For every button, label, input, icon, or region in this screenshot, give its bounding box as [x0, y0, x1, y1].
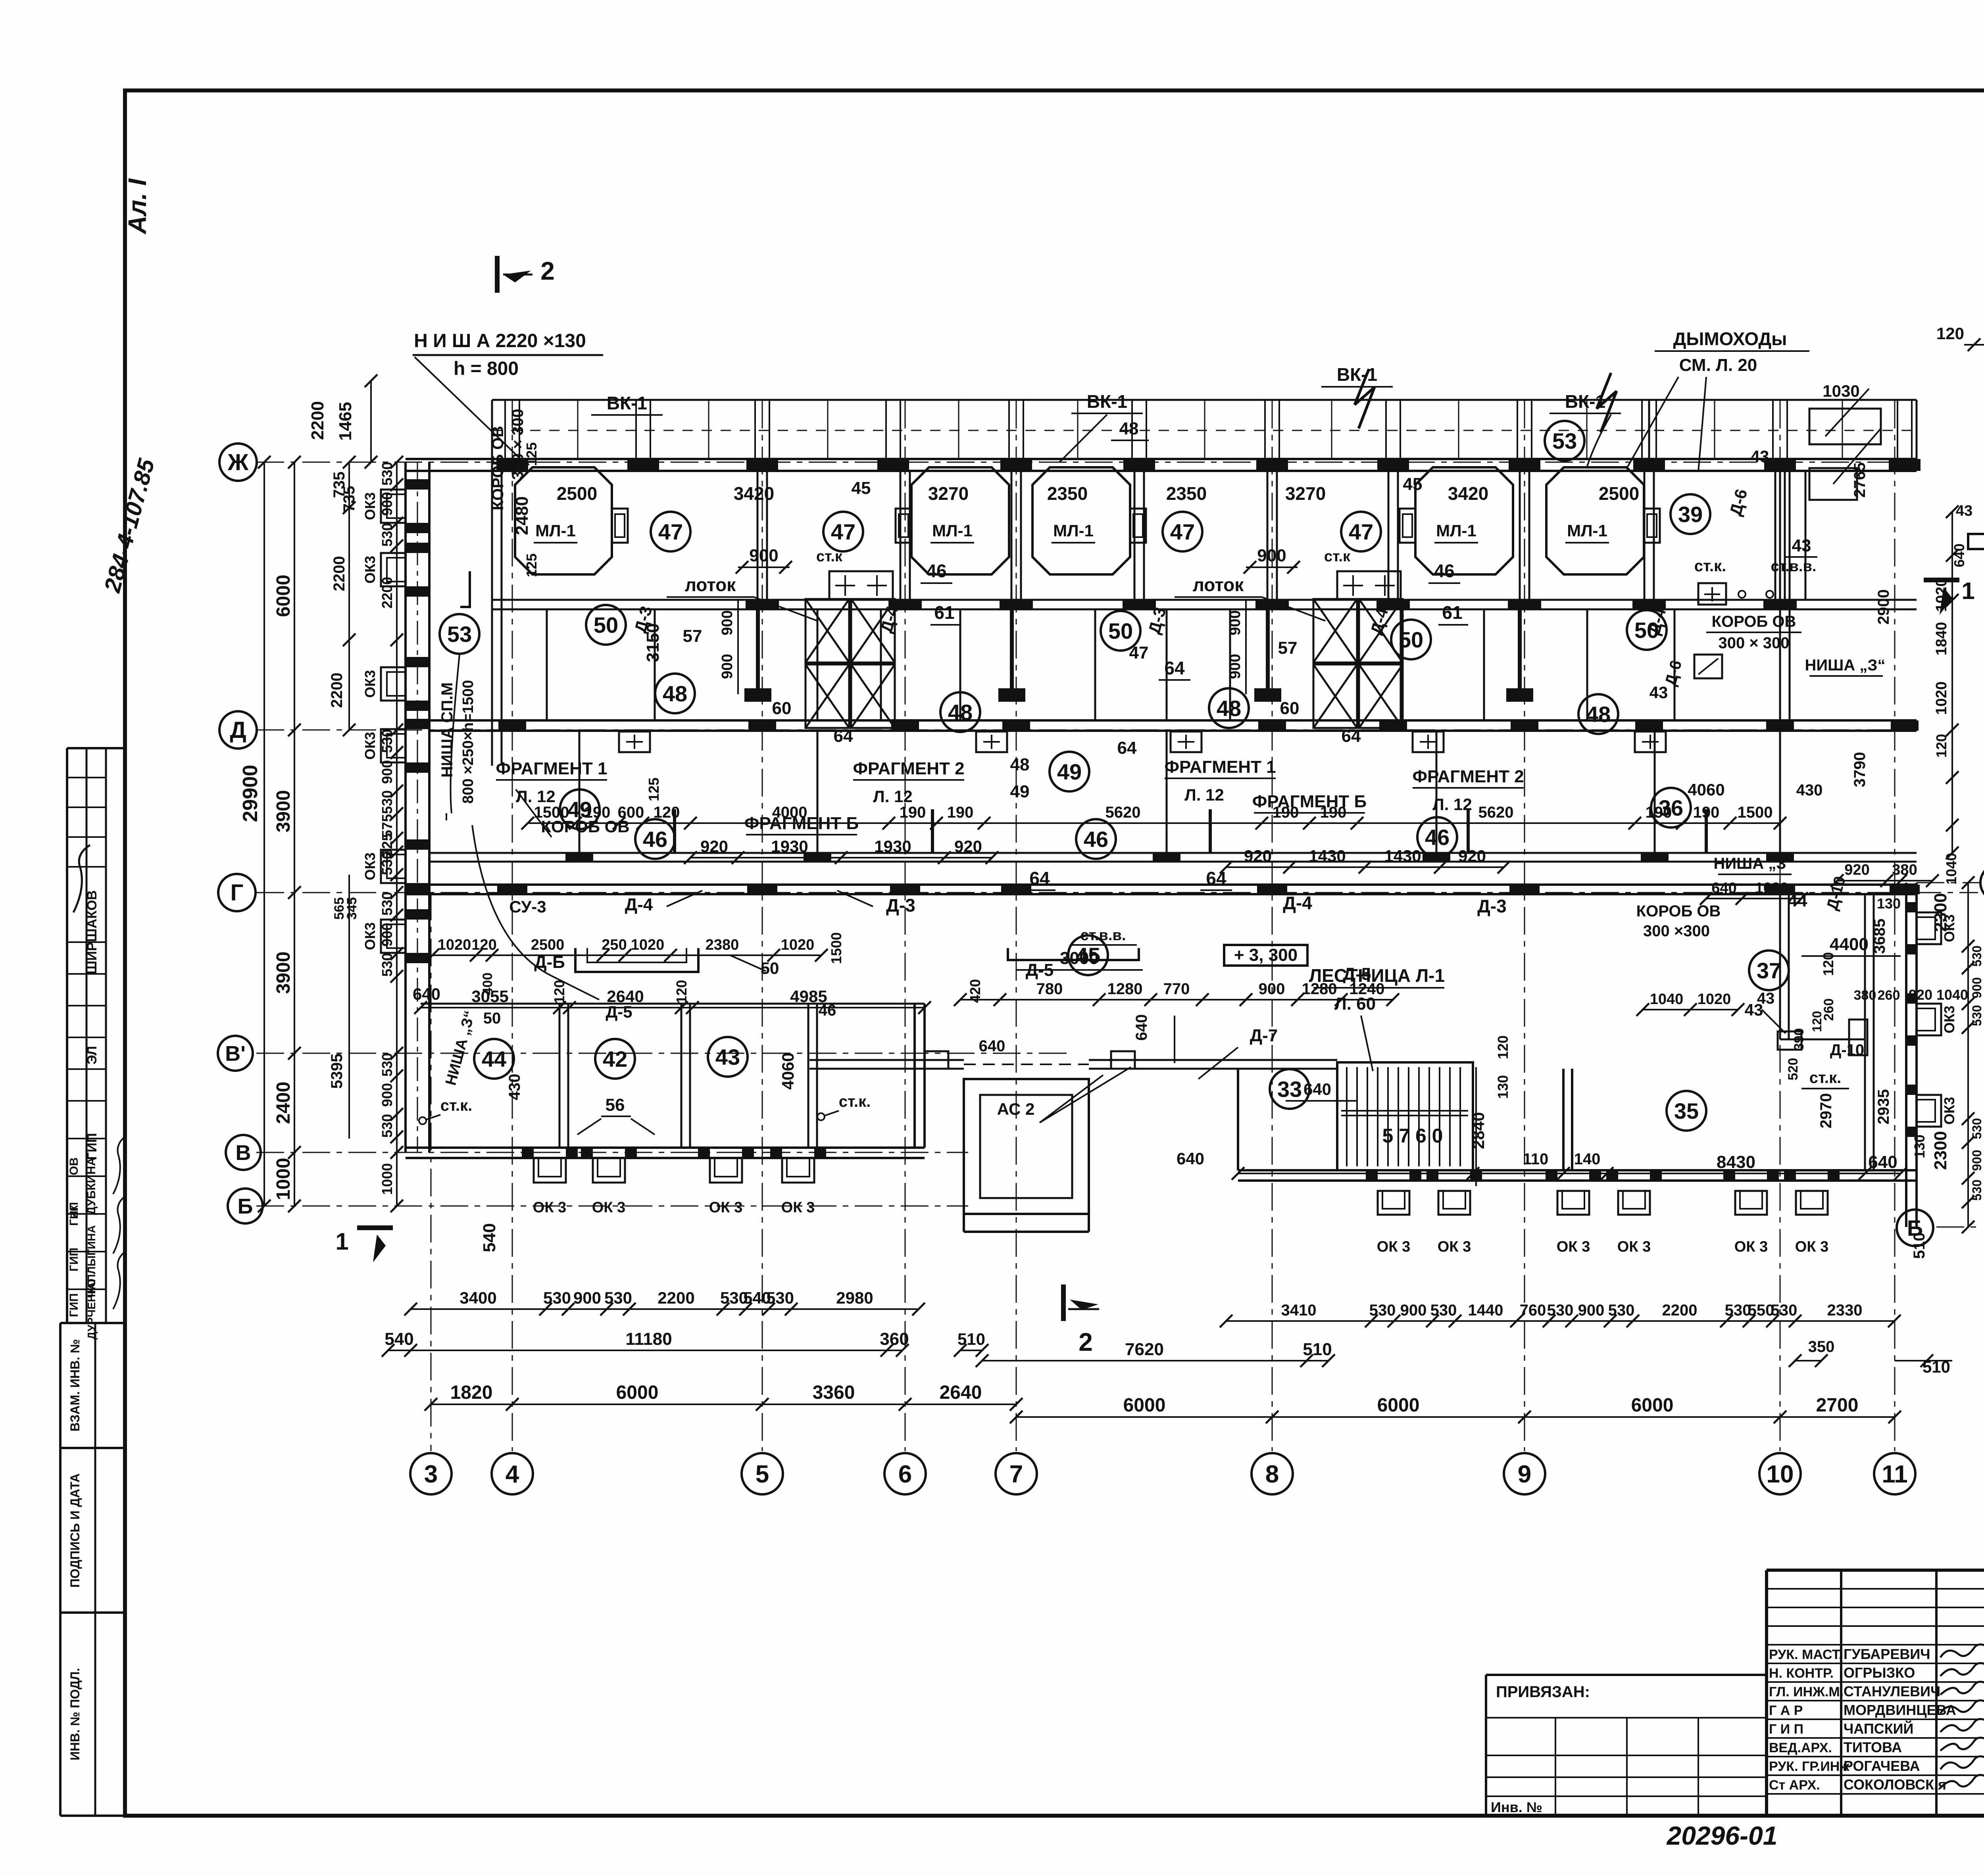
svg-text:48: 48 — [948, 700, 973, 725]
svg-text:46: 46 — [1434, 561, 1454, 581]
svg-text:60: 60 — [772, 699, 792, 718]
svg-text:ВК-1: ВК-1 — [1565, 391, 1605, 412]
svg-text:2350: 2350 — [1047, 483, 1088, 504]
svg-text:510: 510 — [1911, 1233, 1928, 1259]
svg-text:В: В — [236, 1141, 251, 1165]
svg-text:130: 130 — [1877, 895, 1901, 912]
svg-text:ИНВ. № ПОДЛ.: ИНВ. № ПОДЛ. — [68, 1668, 82, 1760]
svg-text:ОК3: ОК3 — [362, 732, 378, 760]
svg-text:Д-4: Д-4 — [1283, 893, 1312, 913]
svg-text:120: 120 — [1936, 324, 1964, 343]
svg-text:ФРАГМЕНТ 2: ФРАГМЕНТ 2 — [853, 759, 964, 778]
svg-text:1280: 1280 — [1107, 980, 1143, 998]
svg-text:760: 760 — [1520, 1302, 1546, 1319]
svg-text:ВК-1: ВК-1 — [1087, 391, 1127, 412]
svg-text:46: 46 — [1425, 825, 1450, 850]
svg-text:640: 640 — [413, 985, 440, 1003]
svg-text:1500: 1500 — [534, 804, 569, 821]
svg-text:64: 64 — [834, 726, 853, 746]
svg-text:Г: Г — [231, 880, 244, 906]
svg-text:ОК3: ОК3 — [362, 853, 378, 880]
svg-text:РУК. МАСТ.: РУК. МАСТ. — [1769, 1647, 1842, 1662]
svg-text:ст.к: ст.к — [1324, 548, 1351, 565]
svg-text:120: 120 — [471, 937, 496, 953]
svg-text:920: 920 — [954, 837, 982, 856]
svg-text:120: 120 — [1495, 1035, 1511, 1059]
svg-text:РУК. ГР.ИНж: РУК. ГР.ИНж — [1769, 1759, 1849, 1774]
svg-text:Б: Б — [238, 1194, 253, 1218]
svg-text:2: 2 — [540, 257, 555, 285]
svg-text:ЭЛ: ЭЛ — [85, 1046, 100, 1065]
svg-text:1465: 1465 — [336, 402, 355, 441]
svg-text:2840: 2840 — [1469, 1112, 1488, 1149]
svg-text:43: 43 — [1751, 447, 1769, 466]
svg-text:3270: 3270 — [928, 483, 969, 504]
svg-text:ВК-1: ВК-1 — [1337, 364, 1377, 385]
svg-text:ст.к.: ст.к. — [1694, 557, 1726, 575]
svg-text:530: 530 — [379, 1053, 395, 1077]
svg-text:50: 50 — [594, 613, 618, 637]
svg-text:530: 530 — [1771, 1302, 1798, 1319]
svg-text:ГИП: ГИП — [85, 1133, 100, 1160]
svg-text:Д-4: Д-4 — [625, 895, 653, 914]
svg-text:2200: 2200 — [308, 401, 327, 440]
svg-text:4060: 4060 — [779, 1052, 797, 1089]
svg-text:2970: 2970 — [1817, 1093, 1835, 1129]
svg-text:ОК3: ОК3 — [1941, 1006, 1957, 1033]
svg-text:Л. 12: Л. 12 — [873, 787, 913, 806]
svg-text:2200: 2200 — [657, 1288, 694, 1307]
svg-text:64: 64 — [1117, 738, 1137, 758]
svg-text:ОК 3: ОК 3 — [592, 1199, 625, 1216]
svg-text:42: 42 — [603, 1046, 627, 1071]
svg-text:ШИРШАКОВ: ШИРШАКОВ — [85, 890, 100, 974]
svg-text:3410: 3410 — [1281, 1302, 1317, 1319]
svg-text:3420: 3420 — [734, 483, 774, 504]
svg-text:390: 390 — [1792, 1028, 1807, 1051]
svg-text:КОРОБ ОВ: КОРОБ ОВ — [1636, 902, 1721, 920]
svg-text:2350: 2350 — [1166, 483, 1207, 504]
svg-text:300 ×300: 300 ×300 — [1643, 922, 1710, 940]
svg-text:2700: 2700 — [1816, 1395, 1859, 1416]
svg-text:МЛ-1: МЛ-1 — [932, 521, 973, 540]
svg-text:ОК3: ОК3 — [362, 556, 378, 584]
svg-text:900: 900 — [749, 546, 778, 565]
svg-text:260: 260 — [1878, 988, 1900, 1003]
svg-text:6000: 6000 — [1377, 1395, 1420, 1416]
svg-text:ТИТОВА: ТИТОВА — [1844, 1739, 1902, 1755]
svg-text:39: 39 — [1678, 502, 1703, 527]
svg-text:ПРИВЯЗАН:: ПРИВЯЗАН: — [1496, 1683, 1590, 1701]
svg-text:61: 61 — [934, 602, 954, 623]
svg-text:Ж: Ж — [227, 449, 249, 475]
svg-text:530: 530 — [1725, 1302, 1751, 1319]
svg-text:Л. 12: Л. 12 — [1184, 785, 1224, 804]
svg-text:5620: 5620 — [1478, 804, 1514, 821]
svg-text:ОГРЫЗКО: ОГРЫЗКО — [1844, 1665, 1915, 1681]
svg-text:1020: 1020 — [438, 937, 471, 953]
svg-text:10: 10 — [1767, 1461, 1794, 1488]
svg-text:ОК 3: ОК 3 — [1377, 1239, 1410, 1255]
svg-text:900: 900 — [379, 1083, 395, 1107]
svg-text:57: 57 — [683, 626, 702, 646]
svg-text:2500: 2500 — [557, 483, 597, 504]
svg-text:1500: 1500 — [828, 932, 844, 964]
svg-text:64: 64 — [1206, 868, 1227, 889]
svg-text:ст.к.: ст.к. — [440, 1097, 473, 1114]
svg-text:3400: 3400 — [459, 1288, 496, 1307]
svg-text:47: 47 — [831, 519, 856, 544]
svg-text:1040: 1040 — [1936, 987, 1968, 1003]
svg-text:4: 4 — [506, 1461, 519, 1488]
svg-text:530: 530 — [379, 953, 395, 977]
svg-text:Д-5: Д-5 — [606, 1002, 632, 1021]
svg-text:ЧАПСКИЙ: ЧАПСКИЙ — [1844, 1720, 1913, 1737]
svg-text:300 × 300: 300 × 300 — [1718, 634, 1789, 652]
svg-text:900: 900 — [719, 610, 736, 635]
svg-text:900: 900 — [1970, 1150, 1984, 1171]
svg-text:ГИП: ГИП — [67, 1293, 81, 1317]
svg-text:МЛ-1: МЛ-1 — [535, 521, 576, 540]
svg-text:МЛ-1: МЛ-1 — [1053, 521, 1094, 540]
svg-text:48: 48 — [1586, 702, 1611, 727]
svg-text:ОК 3: ОК 3 — [533, 1199, 566, 1216]
svg-text:530: 530 — [379, 1114, 395, 1138]
svg-text:530: 530 — [1970, 945, 1984, 966]
svg-text:400: 400 — [480, 973, 495, 995]
svg-text:140: 140 — [1574, 1150, 1601, 1168]
svg-text:Г А Р: Г А Р — [1769, 1703, 1803, 1718]
svg-text:ОК 3: ОК 3 — [709, 1199, 742, 1216]
svg-text:6: 6 — [898, 1461, 912, 1488]
svg-text:920: 920 — [1244, 847, 1272, 865]
svg-text:1020: 1020 — [1933, 682, 1950, 715]
svg-text:6000: 6000 — [273, 575, 294, 617]
svg-text:МЛ-1: МЛ-1 — [1436, 521, 1476, 540]
svg-text:1000: 1000 — [273, 1158, 294, 1200]
svg-text:48: 48 — [1119, 419, 1139, 438]
svg-text:2200: 2200 — [1662, 1302, 1698, 1319]
svg-text:ФРАГМЕНТ 1: ФРАГМЕНТ 1 — [496, 759, 607, 778]
svg-text:530: 530 — [379, 790, 395, 814]
svg-text:640: 640 — [1711, 880, 1736, 897]
svg-text:КОРОБ ОВ: КОРОБ ОВ — [1712, 613, 1796, 630]
svg-text:1440: 1440 — [1468, 1302, 1503, 1319]
svg-text:ОК 3: ОК 3 — [1617, 1239, 1651, 1255]
svg-text:50: 50 — [761, 959, 779, 977]
svg-text:530: 530 — [1369, 1302, 1396, 1319]
svg-text:920: 920 — [1458, 847, 1486, 865]
svg-text:300 × 300: 300 × 300 — [509, 409, 527, 480]
svg-text:В': В' — [225, 1042, 246, 1066]
svg-text:260: 260 — [1821, 998, 1836, 1021]
svg-text:900: 900 — [1257, 546, 1286, 565]
svg-text:1040: 1040 — [1943, 853, 1959, 885]
svg-text:ОК 3: ОК 3 — [781, 1199, 815, 1216]
svg-text:2935: 2935 — [1875, 1089, 1892, 1125]
svg-text:2640: 2640 — [940, 1382, 982, 1403]
svg-text:900: 900 — [573, 1288, 601, 1307]
svg-text:Н. КОНТР.: Н. КОНТР. — [1769, 1666, 1834, 1681]
svg-text:КОРОБ ОВ: КОРОБ ОВ — [489, 426, 507, 511]
svg-text:1020: 1020 — [1933, 578, 1950, 612]
svg-text:125: 125 — [646, 778, 662, 801]
svg-text:60: 60 — [1280, 699, 1300, 718]
svg-text:530: 530 — [543, 1288, 571, 1307]
svg-text:ВК: ВК — [68, 1205, 80, 1219]
svg-text:ОК3: ОК3 — [362, 922, 378, 950]
svg-text:46: 46 — [1084, 827, 1108, 852]
svg-text:53: 53 — [447, 622, 472, 647]
svg-text:5395: 5395 — [328, 1054, 346, 1089]
svg-text:2: 2 — [1079, 1328, 1093, 1356]
svg-text:61: 61 — [1442, 602, 1462, 623]
svg-text:ст.к: ст.к — [816, 548, 843, 565]
svg-text:900: 900 — [1259, 980, 1285, 998]
svg-text:1930: 1930 — [771, 837, 808, 856]
svg-text:6000: 6000 — [1123, 1395, 1166, 1416]
svg-text:ОК3: ОК3 — [1941, 1097, 1957, 1125]
svg-text:МОРДВИНЦЕВА: МОРДВИНЦЕВА — [1844, 1702, 1956, 1718]
svg-text:900: 900 — [1970, 977, 1984, 998]
svg-text:250: 250 — [602, 937, 627, 953]
svg-text:ст.в.в.: ст.в.в. — [1771, 558, 1817, 575]
svg-text:ст.к.: ст.к. — [839, 1093, 871, 1110]
svg-text:2480: 2480 — [512, 496, 532, 535]
svg-text:110: 110 — [1523, 1150, 1549, 1168]
svg-text:190: 190 — [1320, 804, 1347, 821]
svg-text:3900: 3900 — [273, 952, 294, 994]
svg-text:1930: 1930 — [874, 837, 911, 856]
svg-text:2300: 2300 — [1931, 1131, 1950, 1170]
svg-text:125: 125 — [523, 553, 540, 577]
svg-text:900: 900 — [1578, 1302, 1605, 1319]
svg-text:1: 1 — [1961, 578, 1974, 604]
svg-text:ГИП: ГИП — [67, 1248, 81, 1271]
svg-text:44: 44 — [482, 1046, 506, 1071]
svg-text:Д-5: Д-5 — [1026, 960, 1054, 980]
svg-text:1030: 1030 — [1823, 382, 1859, 400]
svg-text:43: 43 — [1757, 990, 1775, 1007]
svg-text:1040: 1040 — [1650, 991, 1684, 1008]
svg-text:11180: 11180 — [625, 1329, 672, 1349]
svg-text:Д-7: Д-7 — [1250, 1026, 1278, 1045]
svg-text:530: 530 — [1970, 1005, 1984, 1026]
svg-text:7620: 7620 — [1125, 1340, 1164, 1359]
svg-text:2500: 2500 — [1599, 483, 1639, 504]
svg-text:Ст АРХ.: Ст АРХ. — [1769, 1778, 1820, 1793]
svg-text:800 ×250×h=1500: 800 ×250×h=1500 — [460, 680, 477, 804]
svg-text:ОК 3: ОК 3 — [1795, 1239, 1828, 1255]
svg-text:43: 43 — [715, 1045, 740, 1070]
svg-text:45: 45 — [852, 478, 871, 498]
svg-text:2400: 2400 — [273, 1082, 294, 1124]
svg-text:8: 8 — [1265, 1461, 1279, 1488]
svg-text:53: 53 — [1552, 428, 1577, 453]
svg-text:190: 190 — [1273, 804, 1299, 821]
svg-text:540: 540 — [480, 1223, 499, 1252]
svg-text:4400: 4400 — [1830, 935, 1869, 954]
svg-text:9: 9 — [1518, 1461, 1531, 1488]
svg-text:h = 800: h = 800 — [454, 358, 519, 379]
svg-text:550: 550 — [1748, 1302, 1774, 1319]
svg-text:8430: 8430 — [1717, 1152, 1755, 1172]
svg-text:4000: 4000 — [772, 804, 807, 821]
svg-text:НИША „З“: НИША „З“ — [1805, 657, 1886, 674]
svg-text:ДЫМОХОДы: ДЫМОХОДы — [1673, 328, 1787, 349]
svg-text:530: 530 — [766, 1288, 794, 1307]
svg-text:2980: 2980 — [836, 1288, 873, 1307]
svg-text:ст.в.в.: ст.в.в. — [1080, 927, 1126, 944]
svg-text:1840: 1840 — [1933, 622, 1950, 656]
svg-text:43: 43 — [1792, 536, 1811, 555]
svg-text:510: 510 — [1303, 1340, 1332, 1359]
svg-text:Д-3: Д-3 — [1477, 896, 1507, 916]
svg-text:47: 47 — [1129, 643, 1149, 662]
svg-text:ФРАГМЕНТ 2: ФРАГМЕНТ 2 — [1412, 767, 1524, 786]
svg-text:ВЗАМ. ИНВ. №: ВЗАМ. ИНВ. № — [68, 1339, 82, 1432]
svg-text:530: 530 — [379, 462, 395, 486]
svg-text:11: 11 — [1882, 1461, 1908, 1488]
svg-text:2200: 2200 — [328, 673, 346, 708]
svg-text:50: 50 — [483, 1010, 501, 1027]
svg-text:2300: 2300 — [1931, 893, 1950, 932]
svg-text:520: 520 — [1786, 1058, 1801, 1081]
svg-text:46: 46 — [643, 827, 667, 852]
svg-text:56: 56 — [606, 1095, 625, 1115]
svg-text:420: 420 — [967, 979, 983, 1003]
svg-text:МЛ-1: МЛ-1 — [1567, 521, 1607, 540]
svg-text:530: 530 — [379, 892, 395, 916]
svg-text:6000: 6000 — [616, 1382, 659, 1403]
svg-text:3: 3 — [424, 1461, 438, 1488]
svg-text:190: 190 — [947, 804, 974, 821]
svg-text:43: 43 — [1649, 683, 1668, 702]
svg-text:48: 48 — [663, 681, 687, 706]
svg-text:лоток: лоток — [1193, 574, 1244, 595]
svg-text:5: 5 — [756, 1461, 769, 1488]
svg-text:3685: 3685 — [1871, 919, 1888, 954]
svg-text:900: 900 — [1227, 654, 1244, 679]
svg-text:ФРАГМЕНТ 1: ФРАГМЕНТ 1 — [1164, 757, 1276, 777]
svg-text:1020: 1020 — [631, 937, 665, 953]
svg-text:1020: 1020 — [1698, 991, 1731, 1008]
svg-text:900: 900 — [719, 654, 736, 679]
svg-text:ДУБКИНА: ДУБКИНА — [85, 1157, 98, 1215]
svg-text:46: 46 — [926, 561, 946, 581]
svg-text:лоток: лоток — [685, 574, 736, 595]
svg-text:35: 35 — [1674, 1098, 1699, 1123]
svg-text:АС 2: АС 2 — [997, 1100, 1035, 1118]
svg-text:48: 48 — [1010, 755, 1030, 774]
svg-text:47: 47 — [1349, 519, 1373, 544]
svg-text:120: 120 — [673, 980, 690, 1004]
svg-text:920: 920 — [1844, 862, 1869, 878]
svg-text:1500: 1500 — [1738, 804, 1773, 821]
svg-text:3270: 3270 — [1285, 483, 1326, 504]
svg-text:510: 510 — [957, 1330, 985, 1348]
svg-text:530: 530 — [1970, 1179, 1984, 1200]
svg-text:130: 130 — [1495, 1075, 1511, 1099]
svg-text:45: 45 — [1403, 474, 1423, 494]
svg-text:СМ. Л. 20: СМ. Л. 20 — [1679, 355, 1757, 375]
svg-text:ГЛ. ИНЖ.М.: ГЛ. ИНЖ.М. — [1769, 1684, 1844, 1699]
svg-text:350: 350 — [1808, 1338, 1835, 1356]
svg-text:29900: 29900 — [239, 765, 262, 822]
svg-text:37: 37 — [1757, 958, 1781, 983]
svg-text:2900: 2900 — [1875, 589, 1892, 625]
svg-text:530: 530 — [1430, 1302, 1457, 1319]
svg-text:1: 1 — [335, 1228, 348, 1255]
svg-text:600: 600 — [618, 804, 644, 821]
svg-text:+ 3, 300: + 3, 300 — [1234, 945, 1298, 965]
svg-text:5 7 6 0: 5 7 6 0 — [1382, 1125, 1443, 1147]
svg-text:50: 50 — [1108, 618, 1133, 643]
svg-text:57: 57 — [1278, 638, 1298, 658]
svg-text:380: 380 — [1854, 988, 1876, 1003]
svg-text:ОК3: ОК3 — [362, 670, 378, 698]
svg-text:ОК 3: ОК 3 — [1734, 1239, 1768, 1255]
svg-text:6000: 6000 — [1631, 1395, 1674, 1416]
svg-text:ЛЕСТНИЦА Л-1: ЛЕСТНИЦА Л-1 — [1309, 965, 1445, 986]
svg-text:120: 120 — [1933, 734, 1949, 758]
svg-text:33: 33 — [1277, 1077, 1302, 1102]
svg-text:64: 64 — [1029, 868, 1050, 889]
svg-text:7: 7 — [1009, 1461, 1023, 1488]
svg-text:780: 780 — [1036, 980, 1063, 998]
svg-text:ВК-1: ВК-1 — [607, 393, 647, 413]
svg-text:64: 64 — [1164, 658, 1185, 678]
svg-text:190: 190 — [1646, 804, 1672, 821]
svg-text:530: 530 — [1970, 1118, 1984, 1139]
svg-text:47: 47 — [1170, 519, 1195, 544]
svg-text:2330: 2330 — [1827, 1302, 1863, 1319]
svg-text:3420: 3420 — [1448, 483, 1488, 504]
svg-text:49: 49 — [1057, 759, 1082, 784]
svg-text:1430: 1430 — [1384, 847, 1421, 865]
svg-text:ОК 3: ОК 3 — [1557, 1239, 1590, 1255]
svg-text:735: 735 — [331, 472, 348, 498]
svg-text:530: 530 — [604, 1288, 632, 1307]
svg-text:ПОДПИСЬ И ДАТА: ПОДПИСЬ И ДАТА — [68, 1473, 82, 1588]
svg-text:3000: 3000 — [1060, 949, 1099, 968]
svg-text:20296-01: 20296-01 — [1666, 1821, 1778, 1850]
svg-text:Д-3: Д-3 — [886, 895, 915, 916]
svg-text:ВЕД.АРХ.: ВЕД.АРХ. — [1769, 1740, 1832, 1755]
svg-text:640: 640 — [979, 1037, 1005, 1055]
svg-text:920: 920 — [700, 837, 728, 856]
svg-text:64: 64 — [1342, 726, 1361, 746]
svg-text:Д: Д — [230, 717, 246, 743]
svg-text:4060: 4060 — [1688, 780, 1724, 799]
svg-text:2200: 2200 — [331, 556, 348, 591]
svg-text:190: 190 — [900, 804, 926, 821]
svg-text:Л. 12: Л. 12 — [1432, 795, 1472, 814]
svg-text:770: 770 — [1163, 980, 1190, 998]
svg-text:ФРАГМЕНТ Б: ФРАГМЕНТ Б — [1252, 792, 1367, 811]
svg-text:ГУБАРЕВИЧ: ГУБАРЕВИЧ — [1844, 1646, 1930, 1662]
svg-text:47: 47 — [658, 519, 683, 544]
svg-text:Н И Ш А 2220 ×130: Н И Ш А 2220 ×130 — [414, 330, 586, 351]
svg-text:ОК 3: ОК 3 — [1438, 1239, 1471, 1255]
svg-text:48: 48 — [1217, 696, 1241, 721]
svg-text:2765: 2765 — [1851, 463, 1869, 498]
svg-text:130: 130 — [1911, 1135, 1928, 1158]
svg-text:640: 640 — [1303, 1080, 1331, 1098]
svg-text:Инв. №: Инв. № — [1491, 1799, 1542, 1815]
svg-text:530: 530 — [379, 523, 395, 547]
svg-text:900: 900 — [379, 760, 395, 784]
